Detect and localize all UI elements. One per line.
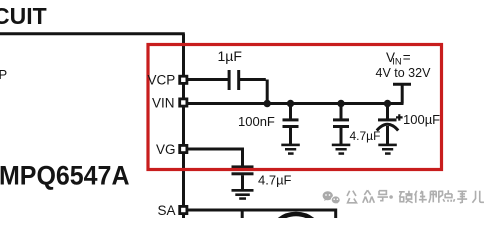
svg-text:4.7µF: 4.7µF xyxy=(258,173,292,188)
svg-text:MPQ6547A: MPQ6547A xyxy=(0,160,130,190)
svg-text:100µF: 100µF xyxy=(403,112,440,127)
svg-text:VG: VG xyxy=(156,142,176,157)
svg-text:4V to 32V: 4V to 32V xyxy=(376,66,432,80)
svg-text:1µF: 1µF xyxy=(218,48,242,64)
svg-text:=: = xyxy=(403,50,411,65)
svg-text:CUIT: CUIT xyxy=(0,3,47,29)
svg-text:SA: SA xyxy=(158,203,176,218)
svg-text:VCP: VCP xyxy=(148,72,176,87)
svg-text:P: P xyxy=(0,67,7,82)
svg-text:100nF: 100nF xyxy=(238,114,275,129)
svg-text:VIN: VIN xyxy=(152,96,175,111)
svg-text:4.7µF: 4.7µF xyxy=(350,129,381,143)
